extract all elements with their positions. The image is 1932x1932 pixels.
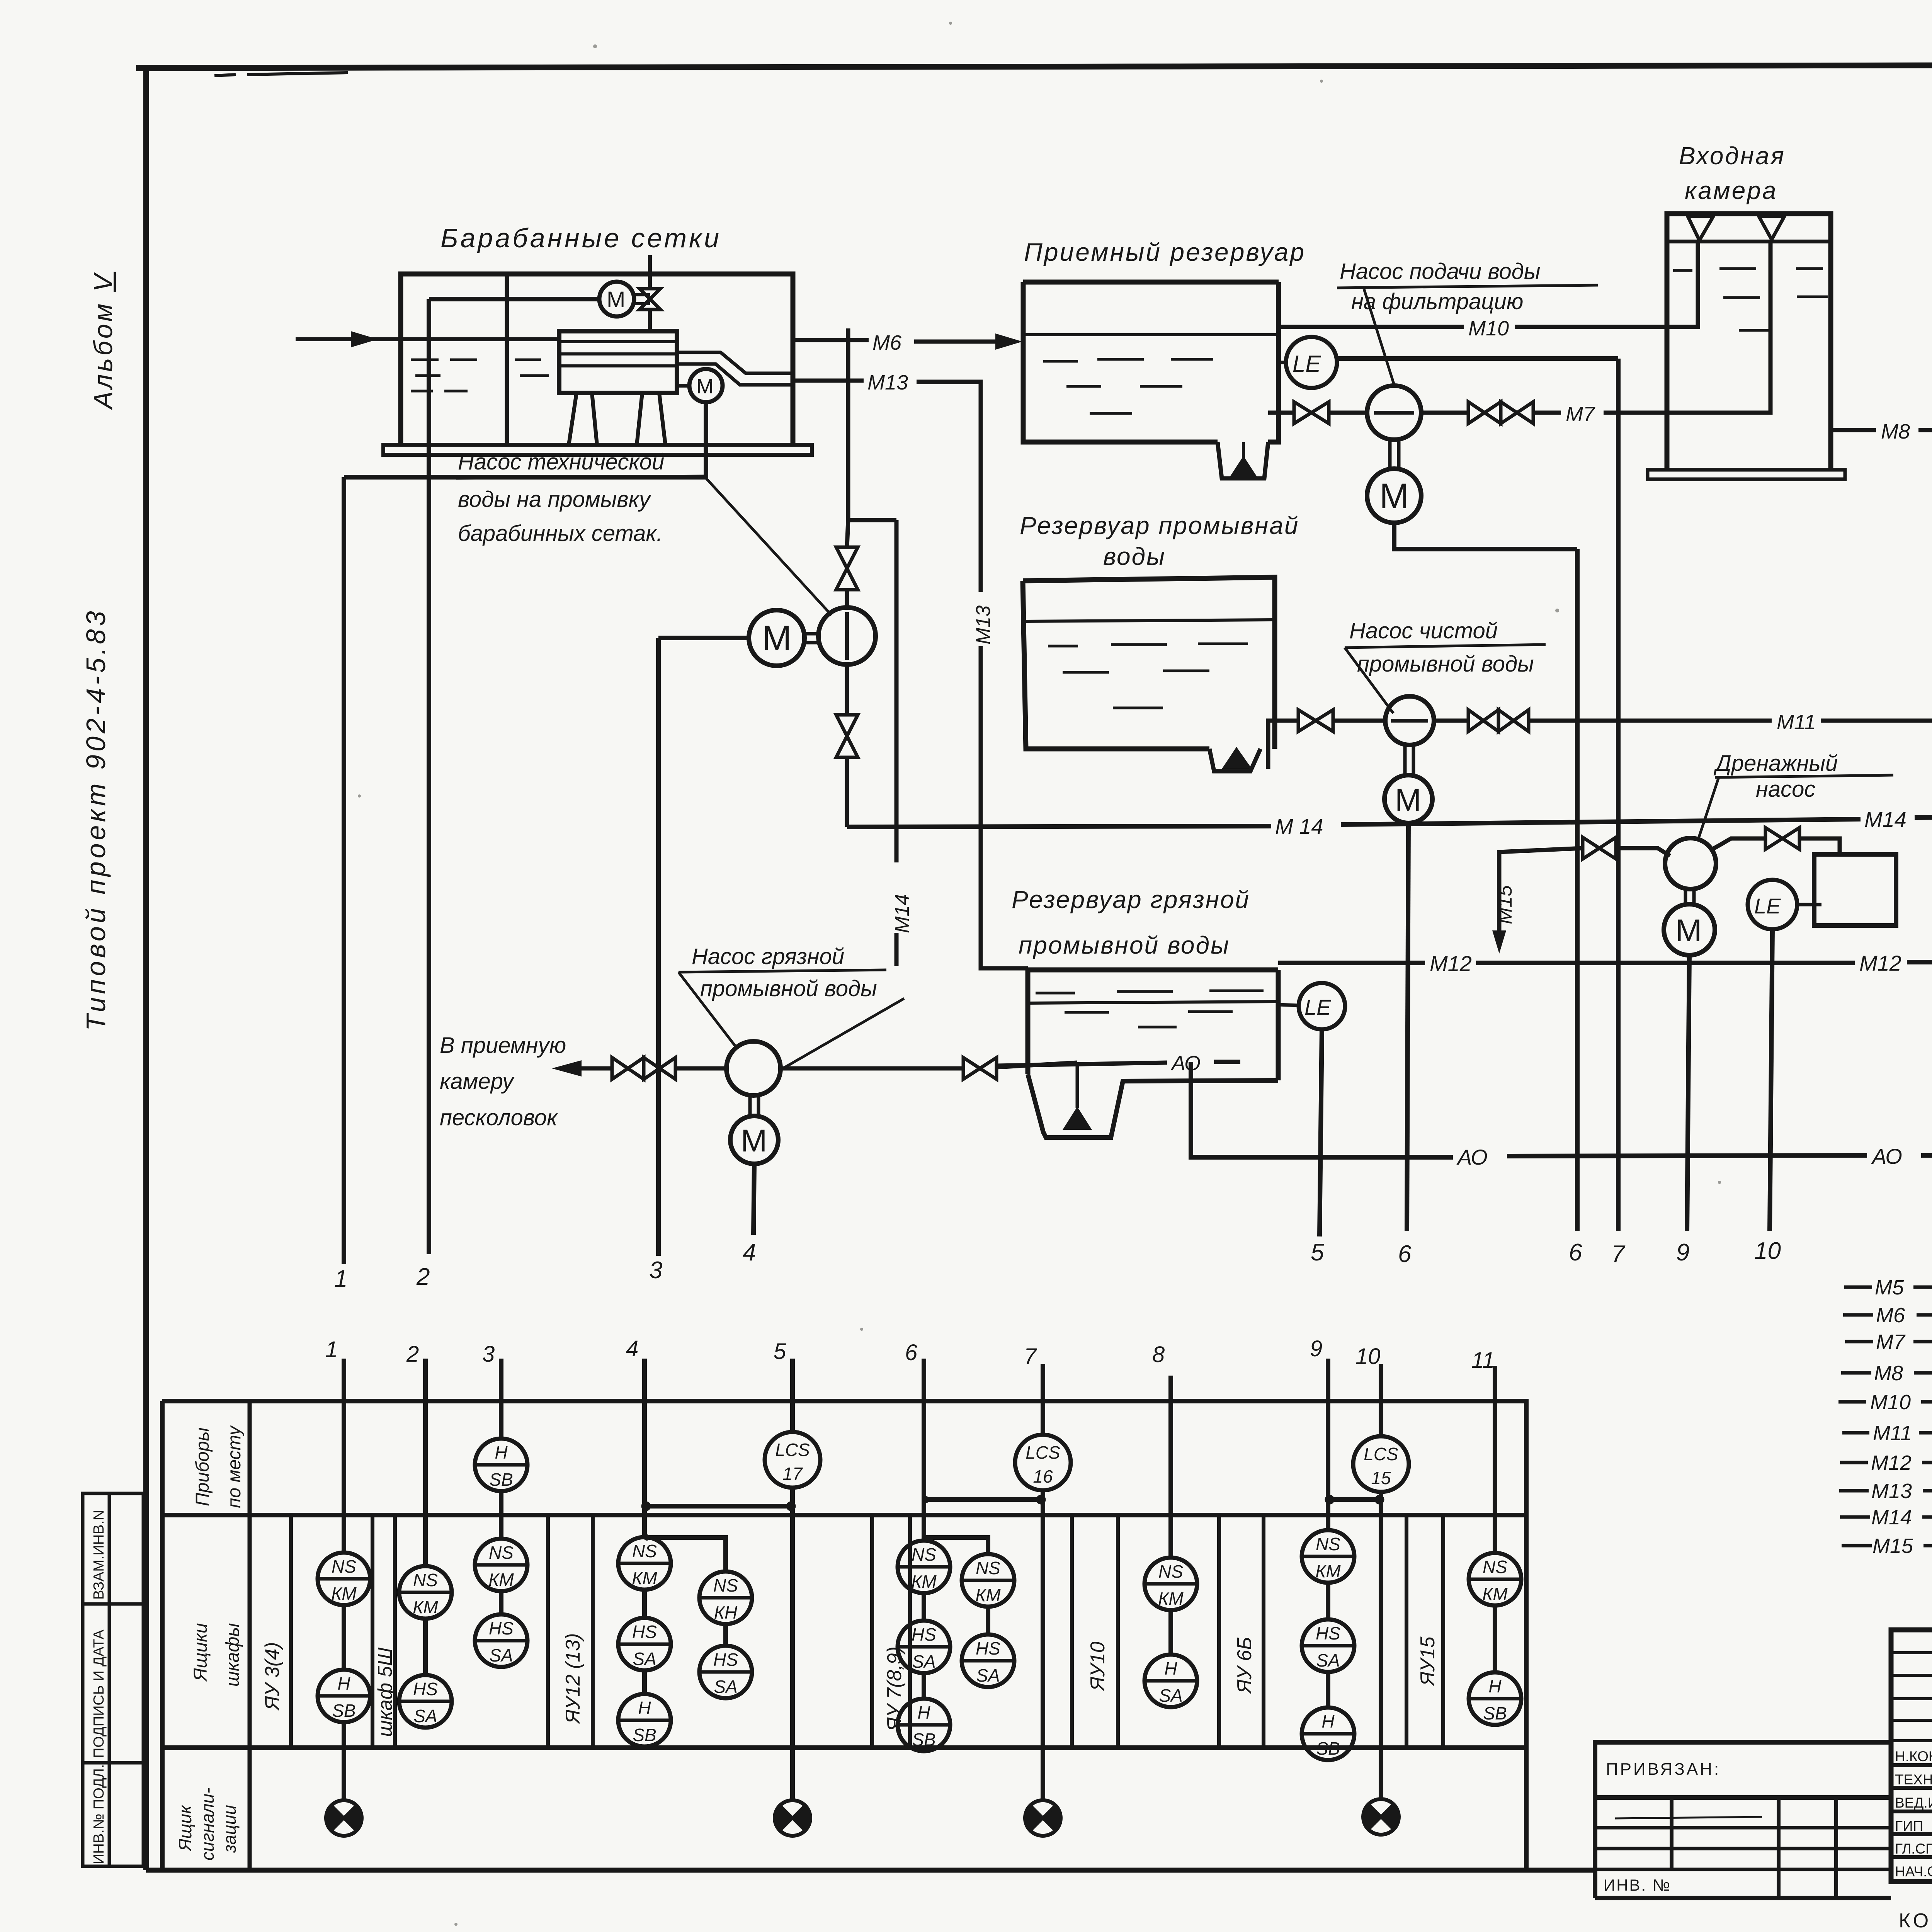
svg-text:М10: М10 <box>1468 317 1509 340</box>
pipe valve to box <box>1799 838 1840 854</box>
svg-text:М6: М6 <box>1876 1304 1905 1327</box>
svg-text:Н: Н <box>638 1698 651 1718</box>
svg-text:10: 10 <box>1355 1344 1381 1369</box>
discharge double valve <box>1468 710 1529 731</box>
label underline <box>1345 645 1546 648</box>
instrument H SB col11 <box>1469 1672 1521 1725</box>
jog to LCS15 <box>1328 1497 1381 1502</box>
instrument NS KM col9 <box>1302 1530 1354 1583</box>
svg-text:М5: М5 <box>1875 1276 1904 1299</box>
wire M to line 6 <box>1394 523 1577 549</box>
signal line 1 <box>342 477 346 1264</box>
svg-text:М14: М14 <box>1871 1506 1912 1529</box>
svg-text:насос: насос <box>1756 777 1815 802</box>
drum box <box>559 331 677 393</box>
instrument H SA col8 <box>1145 1655 1197 1707</box>
chamber walls <box>1667 214 1831 471</box>
svg-text:9: 9 <box>1676 1239 1689 1266</box>
water line <box>1023 333 1279 336</box>
svg-text:SА: SА <box>1159 1685 1182 1706</box>
svg-text:КМ: КМ <box>1482 1584 1508 1604</box>
jog to LCS16 <box>924 1497 1043 1502</box>
AO branch down <box>1189 1062 1193 1157</box>
col6b link <box>986 1607 990 1634</box>
drain suction valve <box>1583 837 1616 859</box>
suction valve <box>1294 402 1329 423</box>
svg-text:М15: М15 <box>1494 885 1516 924</box>
svg-text:3: 3 <box>482 1342 495 1367</box>
wash tank sump <box>1209 749 1260 771</box>
tech pump motor M <box>749 610 804 666</box>
svg-text:АО: АО <box>1456 1145 1488 1169</box>
discharge double valve <box>612 1058 675 1079</box>
signal lamp col5 <box>774 1800 811 1836</box>
pipe valve to pump <box>1329 411 1367 415</box>
instrument NS KM col11 <box>1469 1553 1521 1605</box>
M15 drain stub <box>1499 848 1583 939</box>
wire tech motor to line 3 <box>658 636 749 640</box>
pipe into upper valve <box>847 520 848 607</box>
M12 header pipe <box>1278 962 1932 963</box>
instrument NS KM col1 <box>318 1553 370 1605</box>
chamber water top line <box>1667 240 1831 243</box>
label underline <box>1337 285 1598 288</box>
svg-text:NS: NS <box>1483 1557 1507 1577</box>
svg-text:камеру: камеру <box>440 1069 515 1094</box>
svg-text:Насос чистой: Насос чистой <box>1349 618 1498 643</box>
clean pump motor M <box>1384 775 1432 823</box>
legend line M13 <box>1839 1489 1932 1493</box>
svg-text:камера: камера <box>1685 177 1777 204</box>
instrument H SB col1 <box>318 1670 370 1722</box>
jog to LCS17 <box>645 1504 793 1509</box>
svg-text:КОПИРОВАЛ: ЛОГИНОВА: КОПИРОВАЛ: ЛОГИНОВА <box>1899 1910 1932 1932</box>
svg-text:М: М <box>607 287 625 312</box>
svg-text:М14: М14 <box>1864 807 1906 832</box>
signal line 6a <box>1407 823 1408 1231</box>
svg-text:9: 9 <box>1310 1336 1322 1361</box>
svg-text:NS: NS <box>489 1543 514 1563</box>
inlet line <box>296 337 559 341</box>
wire M2 down and left <box>344 402 706 477</box>
svg-text:Ящики: Ящики <box>190 1623 211 1682</box>
discharge pipe <box>576 1066 612 1071</box>
inlet arrowhead <box>351 331 378 347</box>
svg-text:ГИП: ГИП <box>1895 1818 1923 1834</box>
svg-text:Насос подачи воды: Насос подачи воды <box>1340 259 1541 284</box>
M10 overflow pipe <box>1279 241 1698 327</box>
signal line 7 <box>1616 359 1621 1231</box>
pipe valve to pump <box>1333 719 1385 723</box>
svg-text:промывной воды: промывной воды <box>700 976 877 1001</box>
label underline <box>679 970 886 972</box>
svg-text:М: М <box>1395 782 1421 818</box>
frame left border <box>143 66 149 1870</box>
svg-text:КМ: КМ <box>413 1597 438 1617</box>
svg-text:LCS: LCS <box>1026 1442 1060 1463</box>
water dashes compartment 1 <box>411 360 477 391</box>
svg-text:Насос грязной: Насос грязной <box>692 944 844 969</box>
svg-text:NS: NS <box>976 1558 1000 1578</box>
dirty tank sump <box>1028 1074 1278 1138</box>
привязан box <box>1595 1742 1891 1898</box>
svg-text:NS: NS <box>713 1575 738 1595</box>
dirty tank water line <box>1028 1002 1278 1003</box>
svg-text:М6: М6 <box>872 331 902 354</box>
svg-text:Н: Н <box>917 1702 930 1723</box>
svg-text:Насос технической: Насос технической <box>458 449 664 474</box>
jog to col6b <box>924 1537 988 1554</box>
svg-text:М8: М8 <box>1874 1362 1903 1385</box>
svg-text:М: М <box>741 1123 767 1158</box>
frame bottom border <box>146 1868 1595 1873</box>
jog to col4b <box>645 1537 726 1571</box>
svg-text:7: 7 <box>1611 1241 1626 1267</box>
signal line 2 <box>427 299 431 1254</box>
signal line 10 <box>1770 929 1772 1231</box>
coupling M1 to valve <box>634 295 650 304</box>
svg-text:Входная: Входная <box>1679 142 1786 170</box>
svg-text:SА: SА <box>714 1677 737 1697</box>
svg-text:SB: SB <box>1483 1703 1507 1723</box>
pipe below pump <box>845 665 849 827</box>
column 11 stub <box>1493 1366 1497 1672</box>
pipe pump to valves <box>1434 719 1468 723</box>
svg-text:6: 6 <box>1398 1241 1412 1267</box>
svg-text:LE: LE <box>1293 351 1321 377</box>
suction drop pipe <box>1076 1063 1079 1108</box>
svg-text:NS: NS <box>632 1541 657 1561</box>
svg-text:М 14: М 14 <box>1275 814 1323 838</box>
svg-text:2: 2 <box>406 1342 419 1367</box>
svg-text:ИНВ. №: ИНВ. № <box>1604 1876 1671 1894</box>
column 3 stub <box>499 1359 503 1614</box>
instrument H SB col3 row1 <box>475 1439 527 1491</box>
instrument HS SA col9 <box>1302 1619 1354 1672</box>
drain collection box <box>1814 854 1896 925</box>
svg-text:промывной воды: промывной воды <box>1357 651 1534 677</box>
legend line M8 <box>1841 1371 1932 1375</box>
instrument NS KM col3 <box>475 1539 527 1591</box>
svg-text:М11: М11 <box>1873 1422 1912 1445</box>
svg-text:Приемный резервуар: Приемный резервуар <box>1024 238 1306 266</box>
svg-text:М11: М11 <box>1777 711 1816 734</box>
feed pump body <box>1367 386 1421 440</box>
M11 pipe to filter <box>1529 719 1932 723</box>
svg-text:М: М <box>1675 913 1702 948</box>
svg-text:LE: LE <box>1754 894 1781 918</box>
svg-text:1: 1 <box>334 1265 347 1292</box>
discharge arrowhead <box>552 1060 582 1077</box>
row2 box verticals <box>291 1515 1443 1748</box>
instrument NS KM col6 <box>898 1541 950 1593</box>
pipe pump to valves <box>1421 411 1468 415</box>
legend line M5 <box>1844 1286 1932 1289</box>
wash pipe from drum down <box>848 328 896 520</box>
tech pump upper valve <box>836 547 858 590</box>
legend line M7 <box>1845 1340 1932 1344</box>
valve on drum wash header <box>639 289 660 310</box>
wire LE to line 7 <box>1337 356 1618 361</box>
signal line 9 <box>1687 955 1689 1231</box>
svg-text:Дренажный: Дренажный <box>1713 751 1838 776</box>
table header column divider <box>248 1401 252 1871</box>
svg-text:HS: HS <box>1316 1623 1340 1643</box>
svg-text:6: 6 <box>905 1340 918 1365</box>
instrument HS SA col4 <box>618 1618 671 1670</box>
svg-text:барабинных сетак.: барабинных сетак. <box>458 521 663 546</box>
legend line M10 <box>1838 1400 1932 1404</box>
svg-text:SА: SА <box>413 1706 437 1726</box>
signal line 6 <box>1575 549 1580 1231</box>
svg-text:Н: Н <box>1164 1658 1177 1679</box>
frame top border <box>136 64 1932 68</box>
svg-text:КМ: КМ <box>911 1571 937 1592</box>
col4b link <box>723 1624 728 1646</box>
pipe into tank <box>997 1063 1077 1067</box>
tank suction valve <box>963 1058 997 1079</box>
sump suction triangle <box>1229 456 1258 478</box>
svg-text:ВЗАМ.ИНВ.N: ВЗАМ.ИНВ.N <box>91 1510 107 1600</box>
svg-text:LCS: LCS <box>1364 1444 1398 1464</box>
tech water branch M14 riser <box>895 520 899 966</box>
svg-text:зации: зации <box>219 1805 240 1853</box>
svg-text:15: 15 <box>1371 1468 1391 1488</box>
instrument HS SA col4b <box>699 1646 752 1698</box>
svg-text:HS: HS <box>713 1650 738 1670</box>
wire M2 link to drum <box>677 384 689 388</box>
instrument HS SA col6b <box>962 1634 1014 1687</box>
instrument NS KM col6b <box>962 1554 1014 1607</box>
drum tank inner wall <box>505 274 509 445</box>
instrument NS KH col4b <box>699 1571 752 1624</box>
svg-text:10: 10 <box>1754 1238 1781 1264</box>
coupling <box>1390 440 1399 468</box>
pipe valve to pump <box>1616 848 1670 856</box>
svg-text:ЯУ15: ЯУ15 <box>1417 1636 1439 1687</box>
svg-text:Типовой проект 902-4-5.83: Типовой проект 902-4-5.83 <box>81 608 111 1031</box>
level sensor LE drain <box>1748 880 1797 929</box>
svg-text:Н: Н <box>495 1442 508 1463</box>
svg-text:3: 3 <box>649 1257 662 1284</box>
coupling <box>1405 745 1413 775</box>
svg-text:КМ: КМ <box>1315 1561 1341 1581</box>
column 2 stub <box>423 1359 428 1675</box>
table outline <box>162 1401 1526 1871</box>
svg-text:SА: SА <box>633 1649 656 1669</box>
svg-text:В приемную: В приемную <box>440 1033 566 1058</box>
instrument H SB col6 <box>898 1699 950 1751</box>
level sensor LE <box>1286 337 1337 388</box>
suction pipe to tank <box>781 1066 963 1071</box>
svg-text:ЯУ10: ЯУ10 <box>1087 1641 1109 1692</box>
svg-text:NS: NS <box>1158 1561 1183 1582</box>
legend line M15 <box>1842 1544 1932 1548</box>
instrument LCS 17 <box>765 1432 820 1488</box>
column 9 stub <box>1326 1359 1330 1708</box>
signal line 4 <box>753 1164 754 1235</box>
svg-text:Барабанные сетки: Барабанные сетки <box>440 223 721 253</box>
receiving tank walls <box>1023 282 1279 442</box>
svg-text:16: 16 <box>1033 1466 1053 1486</box>
signal lamp col1 <box>326 1800 362 1836</box>
svg-text:11: 11 <box>1471 1348 1495 1373</box>
svg-text:ЯУ12 (13): ЯУ12 (13) <box>562 1633 584 1725</box>
svg-text:КМ: КМ <box>488 1570 514 1590</box>
wash tank walls <box>1023 577 1275 749</box>
svg-text:NS: NS <box>413 1570 438 1590</box>
chamber base plate <box>1648 470 1845 479</box>
svg-text:7: 7 <box>1024 1344 1037 1369</box>
svg-text:М13: М13 <box>972 605 995 645</box>
svg-text:Резервуар грязной: Резервуар грязной <box>1012 886 1250 913</box>
svg-text:М15: М15 <box>1872 1534 1913 1558</box>
svg-text:АО: АО <box>1170 1052 1201 1075</box>
svg-text:шкаф 5Ш: шкаф 5Ш <box>374 1648 396 1737</box>
drum tank base plate <box>383 445 812 455</box>
legend line M11 <box>1842 1431 1932 1435</box>
instrument NS KM col8 <box>1145 1558 1197 1610</box>
sump outlet pipe <box>1268 721 1298 769</box>
svg-text:SB: SB <box>912 1730 935 1750</box>
table row divider 2 <box>162 1745 1526 1750</box>
M8 outlet pipe <box>1831 428 1932 432</box>
svg-text:6: 6 <box>1569 1239 1582 1266</box>
svg-text:КН: КН <box>714 1602 738 1622</box>
svg-text:М12: М12 <box>1871 1451 1912 1475</box>
svg-text:на фильтрацию: на фильтрацию <box>1351 289 1523 314</box>
left funnel <box>1688 216 1713 240</box>
signal lamp col7 <box>1025 1800 1061 1836</box>
right funnel <box>1759 216 1784 240</box>
svg-text:2: 2 <box>416 1264 430 1290</box>
svg-text:Н: Н <box>1321 1711 1335 1731</box>
svg-text:ИНВ.№ ПОДЛ.: ИНВ.№ ПОДЛ. <box>91 1764 107 1864</box>
svg-text:М: М <box>762 619 792 658</box>
instrument NS KM col4 <box>618 1537 671 1590</box>
suction valve <box>1298 710 1333 731</box>
instrument H SB col9 <box>1302 1708 1354 1760</box>
signature stamp table grid <box>1891 1630 1932 1881</box>
clean pump body <box>1385 696 1434 745</box>
water dashes <box>1043 359 1213 413</box>
dirty pump motor M <box>730 1116 778 1164</box>
svg-text:17: 17 <box>782 1464 803 1484</box>
svg-text:ГЛ.СПЕЦ.: ГЛ.СПЕЦ. <box>1895 1841 1932 1857</box>
svg-text:М10: М10 <box>1870 1391 1911 1414</box>
svg-text:ВЕД.ИНЖ: ВЕД.ИНЖ <box>1895 1795 1932 1811</box>
M7 pipe to chamber <box>1533 240 1770 413</box>
svg-text:HS: HS <box>976 1638 1000 1658</box>
label leaders <box>679 972 904 1068</box>
svg-text:SА: SА <box>489 1645 513 1665</box>
svg-text:НАЧ.ОТД.: НАЧ.ОТД. <box>1895 1864 1932 1879</box>
svg-text:М12: М12 <box>1859 951 1901 975</box>
svg-text:NS: NS <box>912 1544 936 1565</box>
column 1 stub <box>342 1359 346 1801</box>
svg-text:АО: АО <box>1871 1144 1902 1168</box>
tech pump lower valve <box>836 715 858 757</box>
svg-text:КМ: КМ <box>331 1583 357 1604</box>
instrument LCS 15 <box>1353 1436 1409 1492</box>
svg-text:SB: SB <box>1316 1738 1340 1759</box>
svg-text:М14: М14 <box>891 894 913 933</box>
water dashes compartment 2 <box>515 360 549 376</box>
margin stamp table <box>83 1493 143 1866</box>
svg-text:М7: М7 <box>1876 1330 1906 1354</box>
wire LE to box <box>1797 903 1821 906</box>
legend line M6 <box>1843 1313 1932 1317</box>
svg-text:М12: М12 <box>1430 951 1472 976</box>
instrument H SB col4 <box>618 1694 671 1747</box>
signal line 5 <box>1320 1029 1322 1236</box>
dirty tank walls <box>1028 970 1278 1080</box>
wash tank water line <box>1025 620 1275 621</box>
sump <box>1218 442 1268 478</box>
wire tank to LE <box>1278 1005 1299 1005</box>
svg-text:NS: NS <box>332 1556 356 1577</box>
M15 arrowhead down <box>1492 930 1506 954</box>
drain discharge valve <box>1765 828 1799 849</box>
svg-text:SА: SА <box>912 1651 935 1672</box>
drain pump body <box>1665 838 1716 889</box>
svg-text:шкафы: шкафы <box>223 1623 243 1687</box>
column 8 stub <box>1168 1376 1173 1655</box>
M13 pipe from drum <box>793 381 1028 968</box>
pipe valve to pump <box>675 1066 726 1071</box>
column 6 stub <box>922 1359 926 1699</box>
svg-text:М13: М13 <box>1871 1480 1912 1503</box>
svg-text:HS: HS <box>632 1622 657 1642</box>
svg-text:4: 4 <box>626 1336 638 1361</box>
svg-text:LE: LE <box>1304 995 1331 1019</box>
svg-text:ЯУ 6Б: ЯУ 6Б <box>1233 1637 1256 1694</box>
label leader <box>704 476 832 615</box>
column 10 stub <box>1379 1364 1383 1799</box>
svg-text:М8: М8 <box>1881 420 1910 443</box>
svg-text:ПРИВЯЗАН:: ПРИВЯЗАН: <box>1606 1760 1721 1779</box>
svg-text:Н: Н <box>337 1673 350 1694</box>
svg-text:сигнали-: сигнали- <box>197 1788 218 1861</box>
drum outlet S-pipe <box>677 352 793 373</box>
label underline and leader <box>1698 775 1893 839</box>
svg-text:SB: SB <box>332 1701 355 1721</box>
instrument HS SA col6 <box>898 1621 950 1673</box>
svg-text:М7: М7 <box>1566 403 1595 426</box>
instrument HS SA col3 <box>475 1614 527 1667</box>
M6 pipe to receiving tank <box>793 340 1005 342</box>
coupling <box>750 1096 759 1116</box>
svg-text:SB: SB <box>489 1469 513 1490</box>
level sensor LE dirty tank <box>1299 983 1345 1029</box>
svg-text:промывной воды: промывной воды <box>1019 931 1230 959</box>
signal line 3 <box>656 638 661 1256</box>
svg-text:КМ: КМ <box>1158 1588 1184 1609</box>
suction pipe <box>1268 411 1294 415</box>
svg-text:Н.КОНТР.: Н.КОНТР. <box>1895 1748 1932 1764</box>
dirty tank water dashes <box>1036 991 1264 1027</box>
svg-text:1: 1 <box>325 1337 338 1362</box>
svg-text:Н: Н <box>1488 1676 1502 1696</box>
motor M2 (flush drive) <box>689 369 723 402</box>
sump suction triangle <box>1222 747 1252 769</box>
svg-text:HS: HS <box>912 1624 936 1645</box>
svg-text:Резервуар промывнай: Резервуар промывнай <box>1020 512 1299 539</box>
svg-text:воды: воды <box>1103 543 1166 570</box>
label leader <box>1364 289 1394 385</box>
instrument LCS 16 <box>1015 1435 1071 1490</box>
legend line M14 <box>1840 1515 1932 1519</box>
